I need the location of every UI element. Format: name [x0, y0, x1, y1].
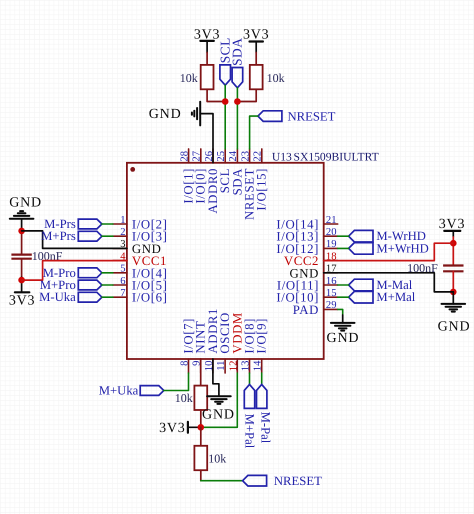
wire M-Mal to pin	[338, 284, 349, 286]
svg-text:GND: GND	[202, 408, 235, 423]
svg-text:U13: U13	[272, 150, 292, 163]
wire SCL to pin 25	[224, 85, 226, 149]
wire C15 bottom	[21, 259, 23, 277]
svg-text:21: 21	[326, 215, 337, 226]
wire GND to pin 3	[22, 231, 127, 249]
U13 pin 27 stub	[200, 149, 202, 163]
wire M+WrHD to pin	[338, 247, 349, 249]
wire R13 to SDA net	[237, 89, 256, 101]
svg-text:NRESET: NRESET	[288, 109, 336, 123]
wire to 3V3 flag	[21, 277, 23, 292]
svg-text:M+Prs: M+Prs	[41, 229, 76, 243]
hierarchical label SCL tag	[220, 65, 231, 85]
U13 pin 29 stub	[324, 308, 338, 310]
ground symbol (PAD)	[331, 323, 355, 331]
wire VDDM to 3V3 junction	[201, 373, 238, 427]
svg-text:20: 20	[326, 227, 337, 238]
wire to GND symbol	[452, 292, 454, 304]
svg-text:GND: GND	[149, 107, 182, 122]
wire R15 to NRESET net	[200, 470, 202, 481]
wire 3V3 to junction	[188, 426, 201, 428]
U13 pin 9 stub	[200, 359, 202, 373]
hierarchical label SDA tag	[232, 68, 243, 88]
wire to NRESET label	[201, 480, 243, 482]
wire 3V3 to pin 4 VCC1	[22, 261, 127, 281]
U13 pin-1 marker dot	[130, 167, 135, 172]
svg-text:I/O[15]: I/O[15]	[255, 168, 269, 211]
U13 pin 14 stub	[261, 359, 263, 373]
svg-text:24: 24	[228, 150, 239, 161]
U13 pin 23 stub	[249, 149, 251, 163]
svg-text:14: 14	[253, 360, 264, 371]
ground symbol (ADDR1)	[207, 396, 231, 404]
wire M+Pro to pin	[102, 284, 113, 286]
U13 pin 26 stub	[212, 149, 214, 163]
svg-text:3V3: 3V3	[9, 294, 36, 309]
svg-text:16: 16	[326, 276, 337, 287]
hierarchical label M-Uka tag	[78, 292, 102, 302]
svg-text:13: 13	[241, 361, 252, 372]
svg-text:SDA: SDA	[230, 38, 245, 66]
wire GND to pin 26 ADDR0	[200, 114, 213, 163]
wire NRESET to pin 23	[250, 116, 258, 149]
U13 pin 22 stub	[261, 149, 263, 163]
svg-text:3V3: 3V3	[159, 421, 186, 436]
svg-text:GND: GND	[438, 320, 471, 335]
junction 3V3 net (left)	[18, 277, 25, 284]
power flag 3V3 bar (bottom, vertical)	[187, 422, 189, 433]
hierarchical label M-Pro tag	[78, 268, 102, 278]
svg-text:6: 6	[120, 276, 125, 287]
U13 pin 10 stub	[212, 359, 214, 373]
svg-text:11: 11	[216, 361, 227, 371]
svg-text:GND: GND	[9, 195, 42, 210]
wire pin 13 to M+Pal	[249, 373, 251, 384]
U13 pin 7 stub	[113, 296, 127, 298]
svg-text:I/O[9]: I/O[9]	[255, 318, 269, 354]
power flag 3V3 bar (left bottom)	[15, 291, 29, 293]
svg-text:23: 23	[240, 151, 251, 162]
resistor R14 10k (NINT pullup)	[194, 386, 207, 410]
U13 pin 19 stub	[324, 247, 338, 249]
svg-text:10k: 10k	[267, 71, 285, 85]
svg-text:M+Pal: M+Pal	[243, 414, 257, 449]
svg-text:22: 22	[253, 151, 264, 162]
svg-text:M-Uka: M-Uka	[39, 290, 76, 304]
wire R12 to SCL net	[207, 89, 225, 101]
U13 pin 21 stub	[324, 223, 338, 225]
svg-text:1: 1	[120, 215, 125, 226]
ground symbol (left, pointing up)	[10, 211, 34, 219]
resistor R15 10k (NRESET pullup)	[194, 446, 207, 470]
U13 pin 1 stub	[113, 223, 127, 225]
U13 pin 28 stub	[188, 149, 190, 163]
hierarchical label M-Prs tag	[78, 219, 102, 229]
svg-text:GND: GND	[327, 331, 360, 346]
wire pin 9 NINT to R14	[200, 359, 202, 386]
svg-text:10k: 10k	[175, 391, 193, 405]
wire PAD to ground	[338, 309, 343, 315]
U13 pin 25 stub	[224, 149, 226, 163]
svg-text:SX1509BIULTRT: SX1509BIULTRT	[294, 150, 379, 163]
svg-text:8: 8	[180, 361, 191, 366]
U13 pin 16 stub	[324, 284, 338, 286]
wire pin 14 to M-Pal	[261, 373, 263, 384]
wire SDA to pin 24	[236, 88, 238, 149]
wire M-Uka to pin	[102, 296, 113, 298]
wire 3V3 to R12	[206, 41, 208, 53]
svg-text:12: 12	[228, 361, 239, 372]
wire 3V3 to pin 18 VCC2	[324, 243, 454, 260]
wire M+Prs to pin	[102, 235, 113, 237]
ground symbol (right bottom)	[442, 304, 466, 312]
wire M+Mal to pin	[338, 296, 349, 298]
svg-text:M+Uka: M+Uka	[99, 384, 139, 398]
svg-text:M-Pal: M-Pal	[259, 412, 273, 444]
resistor R13 10k (SDA pullup)	[250, 65, 263, 89]
wire ADDR1 to ground	[213, 359, 219, 396]
hierarchical label NRESET tag (top)	[258, 111, 282, 122]
svg-text:M+WrHD: M+WrHD	[376, 241, 428, 255]
junction SDA net	[234, 98, 241, 105]
hierarchical label M+Pal tag	[244, 384, 254, 408]
svg-text:10k: 10k	[180, 71, 198, 85]
svg-text:7: 7	[120, 288, 125, 299]
U13 pin 18 stub	[324, 260, 338, 262]
wire C16 bottom	[452, 272, 454, 292]
junction GND net (right)	[450, 289, 457, 296]
capacitor C15 100nF (VCC1 decoupling)	[11, 255, 31, 259]
svg-text:25: 25	[216, 151, 227, 162]
hierarchical label NRESET tag (bottom)	[243, 475, 267, 486]
junction 3V3/NINT/NRESET	[198, 424, 205, 431]
junction SCL net	[222, 98, 229, 105]
U13 pin 5 stub	[113, 272, 127, 274]
svg-text:5: 5	[120, 264, 125, 275]
svg-text:27: 27	[192, 151, 203, 162]
svg-text:15: 15	[326, 288, 337, 299]
hierarchical label M+Pro tag	[78, 280, 102, 290]
hierarchical label M-WrHD tag	[349, 230, 373, 242]
wire M-Pro to pin	[102, 272, 113, 274]
U13 pin 12 stub	[236, 359, 238, 373]
hierarchical label M-Mal tag	[349, 279, 373, 291]
svg-text:10k: 10k	[208, 452, 226, 466]
ground symbol (ADDR0)	[192, 102, 200, 126]
U13 pin 15 stub	[324, 296, 338, 298]
svg-text:NRESET: NRESET	[274, 474, 322, 488]
wire 3V3 to C16	[452, 237, 454, 265]
wire 3V3 down	[452, 231, 454, 237]
wire M-Prs to pin	[102, 223, 113, 225]
U13 pin 6 stub	[113, 284, 127, 286]
U13 pin 11 stub	[224, 359, 226, 373]
hierarchical label M+Mal tag	[349, 291, 373, 303]
svg-text:28: 28	[179, 151, 190, 162]
hierarchical label M+WrHD tag	[349, 243, 373, 255]
wire GND down	[21, 219, 23, 233]
wire M-WrHD to pin	[338, 235, 349, 237]
U13 pin 20 stub	[324, 235, 338, 237]
U13 pin 2 stub	[113, 235, 127, 237]
svg-text:M+Mal: M+Mal	[376, 290, 415, 304]
junction 3V3 net (right)	[450, 240, 457, 247]
wire M+Uka to pin 8	[164, 373, 189, 391]
wire 3V3 to R13	[255, 42, 257, 53]
hierarchical label M+Prs tag	[78, 231, 102, 241]
U13 pin 3 stub	[113, 247, 127, 249]
wire GND to pin 17	[324, 273, 454, 292]
hierarchical label M-Pal tag	[257, 384, 267, 408]
svg-text:3V3: 3V3	[243, 28, 270, 43]
wire junction to R15	[200, 427, 202, 446]
U13 pin 4 stub	[113, 260, 127, 262]
IC U13 SX1509BIULTRT body	[127, 163, 324, 359]
U13 pin 17 stub	[324, 272, 338, 274]
svg-text:29: 29	[326, 300, 337, 311]
resistor R12 10k (SCL pullup)	[201, 65, 214, 89]
U13 pin 24 stub	[236, 149, 238, 163]
svg-text:19: 19	[326, 239, 337, 250]
svg-text:PAD: PAD	[293, 303, 319, 317]
svg-text:2: 2	[120, 227, 125, 238]
hierarchical label M+Uka tag	[140, 386, 164, 396]
wire R14 to 3V3 junction	[200, 410, 202, 427]
wire to C15 top	[21, 233, 23, 254]
junction GND net (left)	[18, 228, 25, 235]
U13 pin 8 stub	[188, 359, 190, 373]
capacitor C16 100nF (VCC2 decoupling)	[443, 266, 463, 272]
svg-text:I/O[6]: I/O[6]	[132, 291, 168, 305]
U13 pin 13 stub	[249, 359, 251, 373]
